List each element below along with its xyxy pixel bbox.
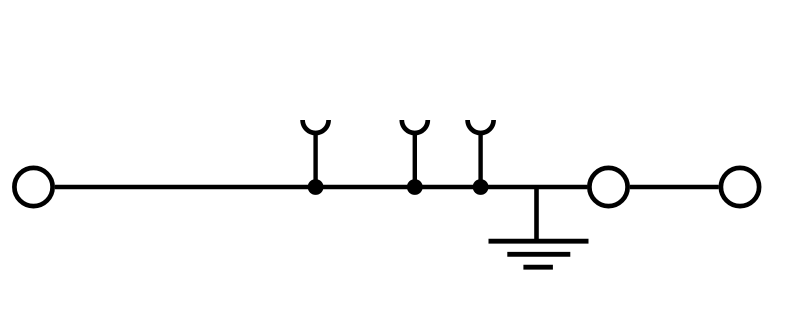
- wire stem tap 2: [413, 131, 417, 187]
- ground bar bottom: [523, 265, 553, 270]
- wire main horizontal: [55, 185, 588, 190]
- terminal circle right: [721, 168, 759, 206]
- wire stem tap 3: [478, 131, 482, 187]
- junction dot 2: [407, 179, 423, 195]
- ground bar top: [489, 239, 589, 244]
- wire right segment: [630, 185, 719, 190]
- socket tap symbol 2 arc: [402, 120, 428, 133]
- terminal circle middle: [589, 168, 627, 206]
- junction dot 1: [308, 179, 324, 195]
- socket tap symbol 3 arc: [468, 120, 494, 133]
- junction dot 3: [473, 179, 489, 195]
- wire ground drop: [534, 187, 539, 241]
- socket tap symbol 1 arc: [303, 120, 329, 133]
- ground bar middle: [507, 252, 570, 257]
- wire stem tap 1: [313, 131, 317, 187]
- terminal circle left: [14, 168, 52, 206]
